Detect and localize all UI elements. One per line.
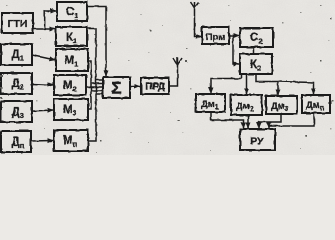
wire bus К1 and Мп to Σ <box>87 29 96 142</box>
wire С2 to К2 stub <box>253 47 255 53</box>
wire М2 to Σ <box>86 86 103 88</box>
wire ГТИ to К1 <box>33 28 55 30</box>
block М1 <box>56 49 88 71</box>
wire stub into Σ y90.5 <box>91 90 103 92</box>
block ПРД <box>141 78 169 94</box>
svg-text:ГТИ: ГТИ <box>8 18 28 30</box>
wire Дм3 to РУ <box>259 114 281 128</box>
block Прм <box>202 27 229 44</box>
wire branch down to К2 <box>233 36 239 65</box>
block Дм3 <box>266 96 297 114</box>
wire branch up to С1 <box>45 11 56 29</box>
svg-text:Прм: Прм <box>206 32 226 43</box>
block М2 <box>54 75 86 95</box>
block К1 <box>56 27 87 46</box>
block Дп <box>1 131 31 152</box>
block Дмп <box>302 95 330 113</box>
block Д1 <box>1 44 32 65</box>
block Дм2 <box>231 95 262 115</box>
wire С1 down to Σ top <box>87 7 106 77</box>
wire bus М1 М3 <box>88 61 91 109</box>
wire Д2 to М2 <box>32 84 53 85</box>
block С1 <box>57 2 87 21</box>
wire stub into Σ y83.5 <box>91 83 103 85</box>
svg-text:РУ: РУ <box>250 136 264 148</box>
scan pepper noise <box>6 5 334 153</box>
block М3 <box>54 99 88 120</box>
wire К2 to Дм1 <box>211 74 242 93</box>
wire К2 to Дм2 <box>246 74 248 94</box>
wire continue to Дмп <box>278 82 314 95</box>
block ГТИ <box>2 13 33 33</box>
wire К2 to Дм3 <box>256 74 278 95</box>
wire antenna feed ПРД <box>169 64 178 86</box>
block С2 <box>240 28 273 47</box>
wire Дмп to РУ <box>269 113 314 128</box>
block Мп <box>54 130 88 151</box>
wire stub into Σ y94 <box>96 93 103 95</box>
svg-text:ПРД: ПРД <box>145 82 164 93</box>
antenna of ПРД <box>173 58 182 66</box>
wire Прм to С2 <box>229 35 239 37</box>
svg-text:Σ: Σ <box>111 79 121 98</box>
block Дм1 <box>196 94 225 112</box>
block Д3 <box>1 101 32 122</box>
wire Д1 to М1 <box>32 55 55 60</box>
block К2 <box>240 54 272 74</box>
block Σ <box>103 77 130 98</box>
wire Σ to ПРД <box>130 86 140 88</box>
wire Дп to Мп <box>31 140 53 143</box>
antenna of Прм <box>191 2 202 37</box>
block РУ <box>240 129 275 150</box>
wire Д3 to М3 <box>32 110 53 111</box>
wire Дм1 to РУ <box>211 112 244 128</box>
wire Дм2 to РУ <box>247 115 249 128</box>
paper background <box>0 0 335 155</box>
wire stub into Σ y80 <box>96 79 103 81</box>
block Д2 <box>1 73 32 94</box>
scan speckles <box>0 18 332 142</box>
